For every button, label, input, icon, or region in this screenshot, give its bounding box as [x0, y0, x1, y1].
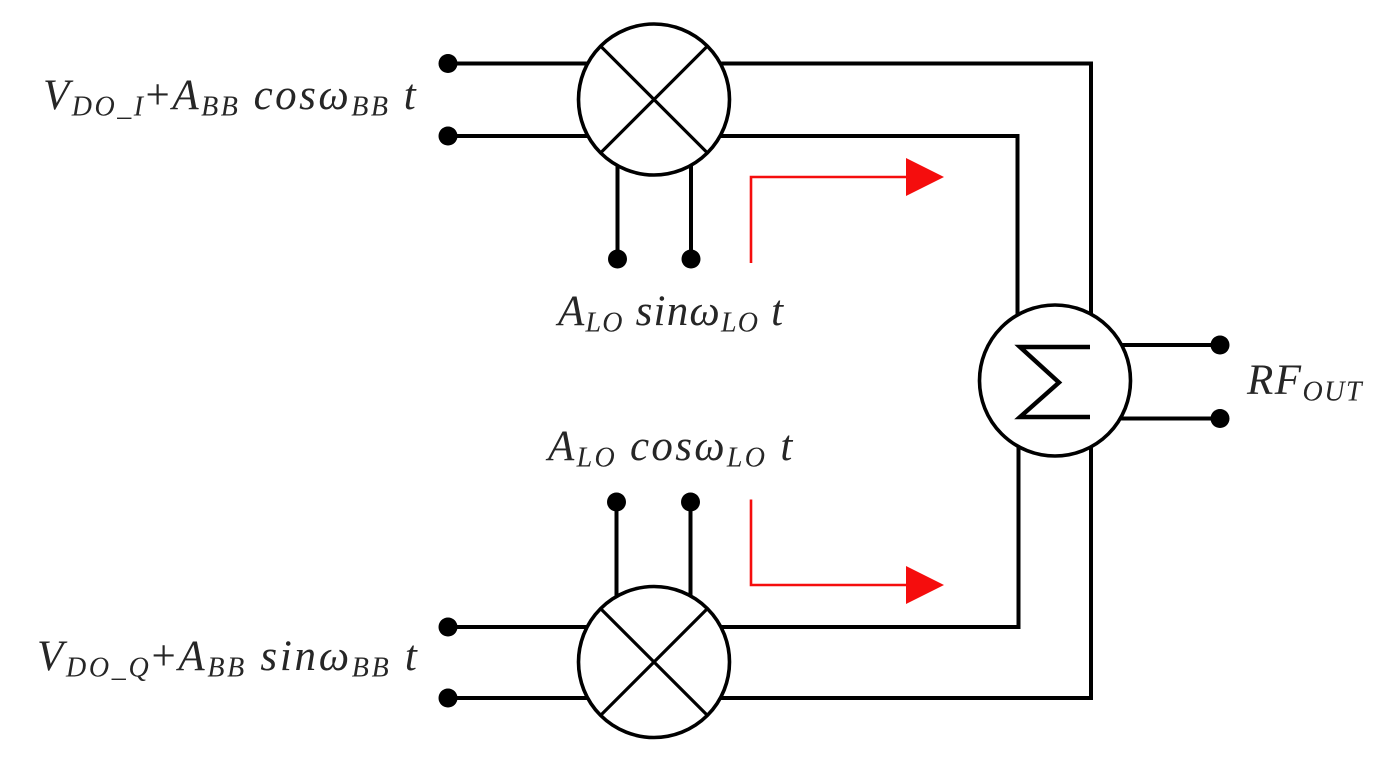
wire LO stub Q right	[689, 502, 693, 662]
terminal dot LO I left	[608, 250, 627, 269]
svg-text:RFOUT: RFOUT	[1246, 357, 1364, 408]
mixer M1 (I channel)	[579, 24, 730, 175]
wire LO stub I right	[689, 100, 693, 260]
svg-text:VDO_I+ABB cosωBB t: VDO_I+ABB cosωBB t	[43, 72, 418, 123]
terminal dot LO Q left	[607, 493, 626, 512]
wire Q input plus	[448, 625, 654, 629]
svg-text:ALO cosωLO t: ALO cosωLO t	[545, 423, 795, 474]
terminal dot LO I right	[682, 250, 701, 269]
red arrow Q upconversion	[751, 500, 944, 605]
svg-text:ALO sinωLO t: ALO sinωLO t	[555, 288, 784, 339]
wire LO stub Q left	[615, 502, 619, 662]
wire Q input minus	[448, 696, 654, 700]
wire RF output plus	[1055, 343, 1220, 347]
mixer M2 (Q channel)	[579, 587, 730, 738]
wire Q output top to summer	[654, 381, 1019, 627]
red arrow I upconversion	[751, 158, 944, 263]
wire RF output minus	[1055, 417, 1220, 421]
summer U1	[980, 305, 1131, 456]
wire I output bottom to summer	[654, 136, 1018, 380]
wire I input plus	[448, 62, 654, 66]
terminal dot Q input minus	[439, 689, 458, 708]
wire LO stub I left	[616, 100, 620, 260]
terminal dot RF minus	[1211, 409, 1230, 428]
wire I output top to summer	[654, 64, 1091, 381]
terminal dot I input minus	[439, 127, 458, 146]
terminal dot Q input plus	[439, 618, 458, 637]
wire I input minus	[448, 134, 654, 138]
svg-text:VDO_Q+ABB sinωBB t: VDO_Q+ABB sinωBB t	[37, 633, 419, 684]
wire Q output bottom to summer	[654, 381, 1091, 698]
terminal dot LO Q right	[681, 493, 700, 512]
terminal dot RF plus	[1211, 336, 1230, 355]
terminal dot I input plus	[439, 54, 458, 73]
